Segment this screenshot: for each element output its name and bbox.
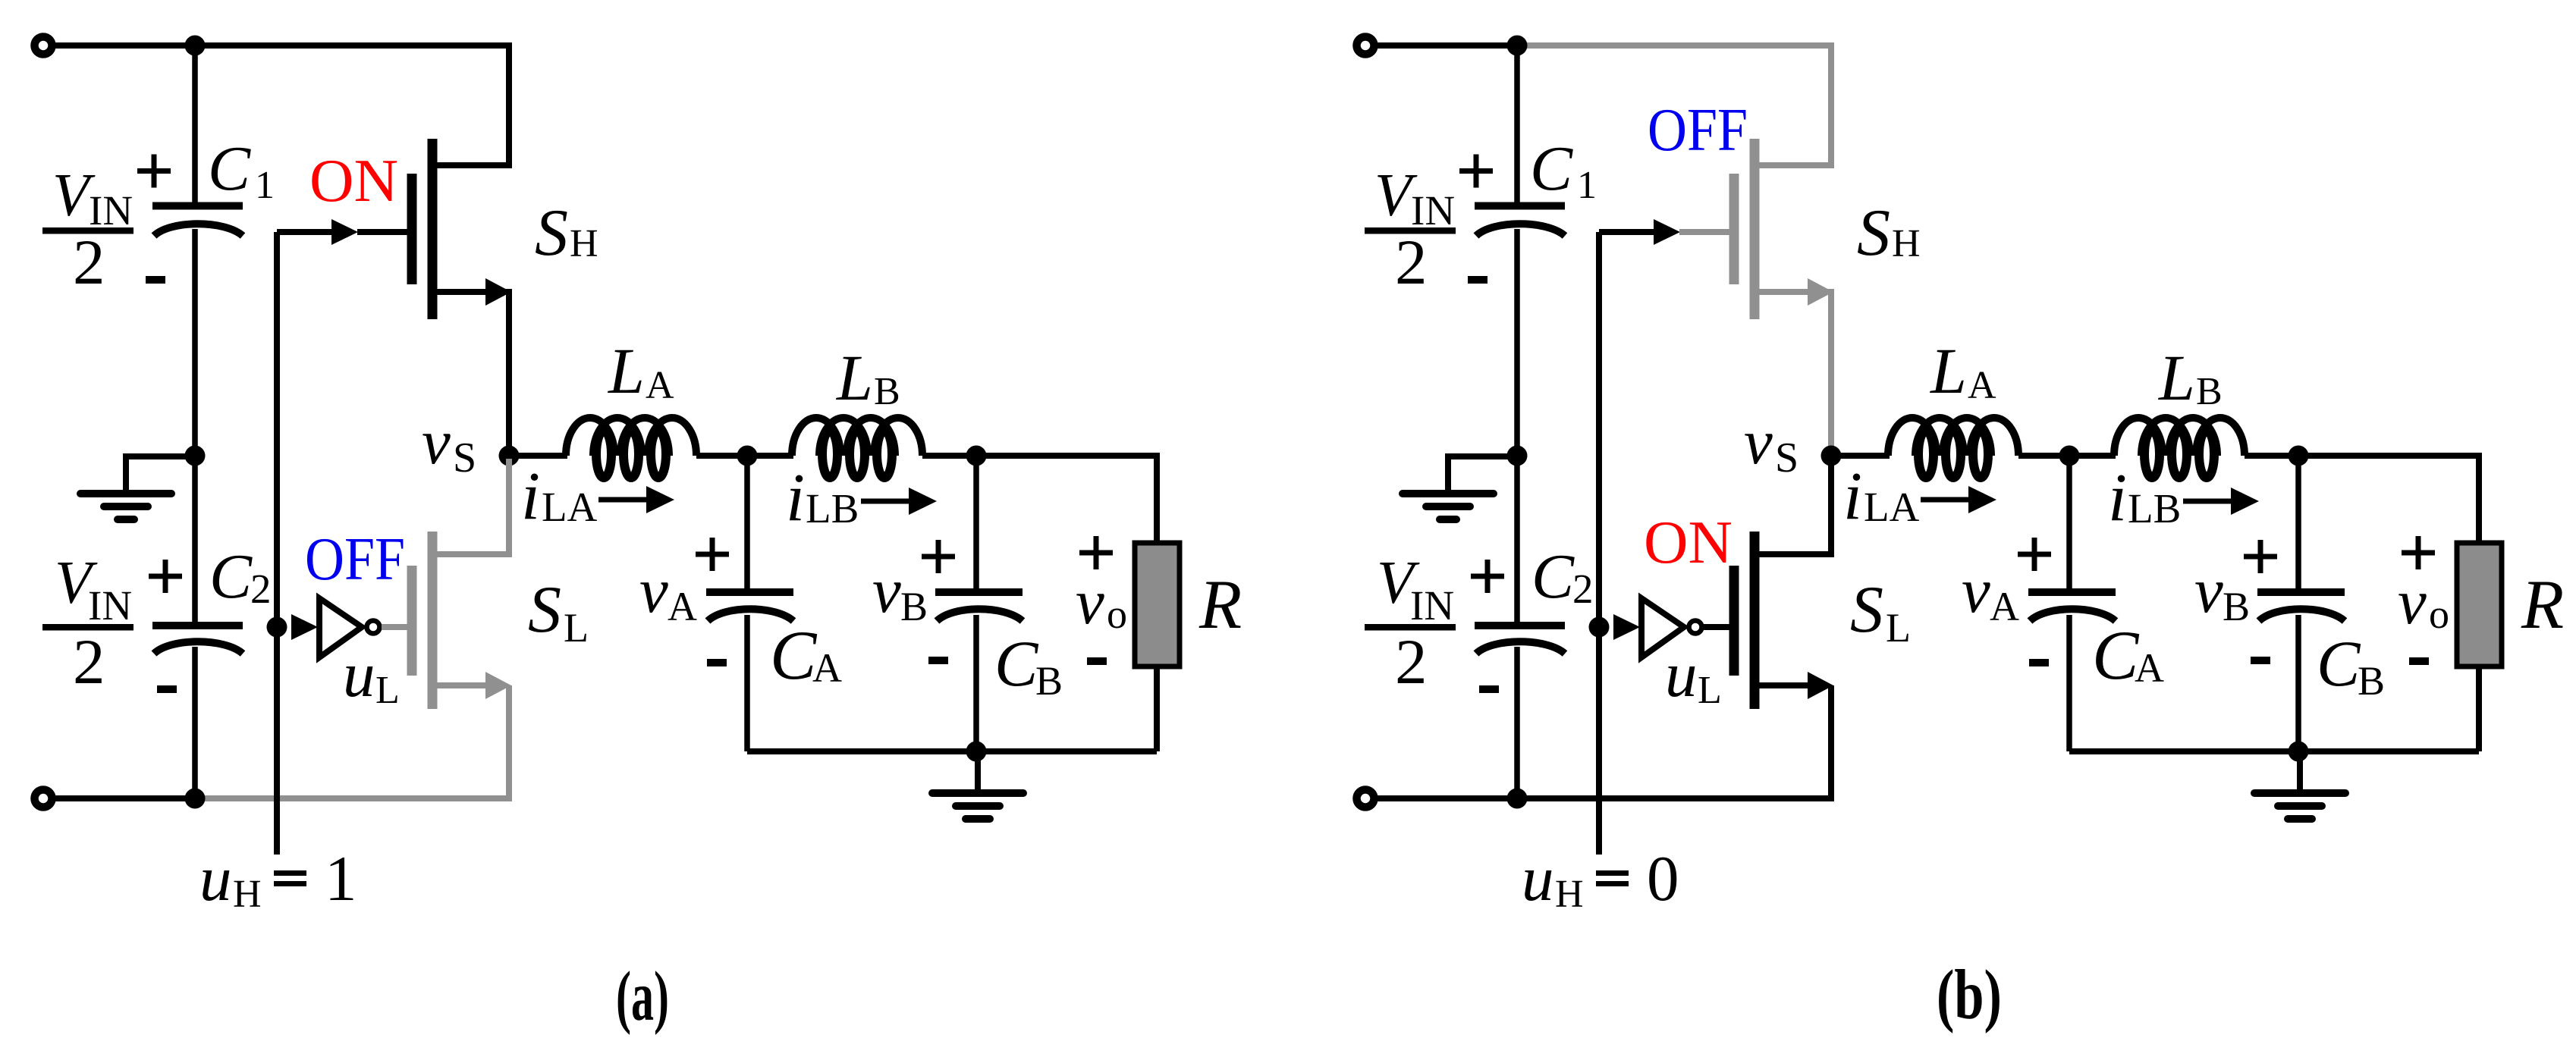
- inverter U1 triangle: [319, 598, 362, 657]
- wire LB to node B: [2245, 453, 2298, 459]
- wire bottom rail left: [1374, 795, 1520, 801]
- arrowhead gate S_H: [331, 219, 358, 245]
- svg-text:B: B: [874, 370, 900, 413]
- polarity plus vo: [2402, 550, 2435, 556]
- transistor S_H drain wire: [1756, 162, 1831, 168]
- svg-text:C: C: [1531, 541, 1575, 612]
- svg-text:LB: LB: [806, 485, 859, 532]
- svg-text:A: A: [1990, 584, 2019, 629]
- polarity minus C2: [157, 685, 177, 693]
- svg-text:IN: IN: [88, 582, 132, 629]
- capacitor CA: [706, 588, 793, 596]
- svg-text:1: 1: [255, 164, 275, 207]
- svg-text:B: B: [2358, 658, 2385, 704]
- polarity minus CB: [2251, 657, 2270, 664]
- arrowhead gate S_H: [1654, 219, 1680, 245]
- wire vS to LA: [509, 453, 567, 459]
- wire C2 top lead: [192, 456, 198, 622]
- wire LA to node A: [2018, 453, 2069, 459]
- inductor LA: [1888, 418, 2018, 456]
- svg-text:0: 0: [1647, 843, 1679, 914]
- svg-text:(b): (b): [1937, 956, 2002, 1034]
- wire top rail to S_H drain: [195, 45, 509, 168]
- transistor S_H source wire + arrow: [434, 289, 487, 295]
- svg-text:OFF: OFF: [1648, 96, 1748, 164]
- polarity minus CA: [707, 659, 727, 666]
- svg-text:2: 2: [73, 227, 105, 298]
- svg-text:C: C: [208, 133, 251, 204]
- node A: [2059, 446, 2080, 466]
- wire C1 bottom lead: [192, 229, 198, 456]
- svg-text:A: A: [1968, 364, 1996, 407]
- svg-text:L: L: [1929, 334, 1967, 407]
- wire vS to S_L drain: [434, 459, 509, 554]
- gate stub S_L: [382, 624, 412, 630]
- svg-text:v: v: [1962, 555, 1990, 626]
- svg-text:L: L: [607, 334, 645, 407]
- svg-text:i: i: [521, 459, 540, 534]
- svg-text:A: A: [2135, 645, 2164, 691]
- wire C2 bottom lead: [1514, 647, 1520, 798]
- junction node CB / ground: [2289, 742, 2309, 762]
- gate stub S_H: [357, 229, 407, 235]
- wire bottom rail to S_L source: [196, 685, 509, 798]
- input terminal bottom: [1357, 790, 1374, 808]
- svg-text:OFF: OFF: [305, 525, 405, 593]
- junction node C1/C2/ground: [185, 446, 206, 466]
- gate stub S_L: [1704, 624, 1734, 630]
- wire node A to LB: [747, 453, 793, 459]
- inductor LA: [566, 418, 696, 456]
- svg-text:v: v: [1744, 406, 1773, 478]
- svg-text:LB: LB: [2128, 485, 2181, 532]
- wire R to rail: [1154, 666, 1160, 751]
- svg-text:ON: ON: [1644, 508, 1733, 576]
- svg-text:2: 2: [1395, 227, 1428, 298]
- capacitor C1: [1475, 202, 1565, 210]
- wire LB to node B: [922, 453, 976, 459]
- svg-text:u: u: [343, 639, 375, 710]
- polarity minus C1: [146, 276, 165, 284]
- junction node top rail / C1: [1507, 36, 1528, 56]
- wire vS to LA: [1831, 453, 1890, 459]
- polarity plus C2: [1471, 574, 1504, 579]
- svg-text:LA: LA: [1864, 484, 1920, 530]
- svg-text:i: i: [1843, 459, 1862, 534]
- svg-text:o: o: [1107, 591, 1127, 637]
- gate drive wire to S_H: [1599, 229, 1654, 235]
- control net uH vertical: [1596, 232, 1602, 855]
- wire top rail left: [1374, 42, 1519, 49]
- svg-text:H: H: [233, 873, 262, 916]
- wire node B to R: [976, 456, 1157, 543]
- wire C1 top lead: [1514, 45, 1520, 203]
- ground symbol left: [126, 456, 195, 491]
- wire top rail left: [52, 42, 196, 49]
- svg-text:C: C: [209, 541, 253, 612]
- transistor S_L gate bar: [407, 566, 417, 676]
- transistor S_H channel bar: [1750, 139, 1760, 319]
- transistor S_L source wire + arrow: [434, 682, 487, 688]
- svg-text:u: u: [1665, 639, 1698, 710]
- wire C1 top lead: [192, 45, 198, 203]
- resistor R: [1135, 543, 1180, 666]
- junction node bottom rail / C2: [1507, 789, 1528, 809]
- svg-text:LA: LA: [542, 484, 598, 530]
- svg-text:L: L: [375, 669, 400, 712]
- polarity plus CA: [696, 552, 729, 557]
- svg-text:L: L: [2157, 341, 2195, 414]
- node A: [737, 446, 758, 466]
- resistor R: [2457, 543, 2502, 666]
- junction node CB / ground: [966, 742, 987, 762]
- input terminal bottom: [35, 790, 52, 808]
- svg-text:A: A: [812, 645, 842, 691]
- svg-text:L: L: [835, 341, 873, 414]
- polarity minus C2: [1479, 685, 1499, 693]
- svg-text:1: 1: [1577, 164, 1597, 207]
- svg-text:R: R: [1198, 566, 1242, 643]
- junction node uH / inverter: [1589, 617, 1610, 638]
- junction node bottom rail / C2: [185, 789, 206, 809]
- svg-text:R: R: [2521, 566, 2564, 643]
- polarity minus CB: [928, 657, 948, 664]
- wire node B to R: [2298, 456, 2479, 543]
- capacitor CB: [2257, 588, 2345, 596]
- wire bottom rail to S_L source: [1519, 685, 1831, 798]
- svg-text:H: H: [570, 222, 598, 265]
- arrowhead inverter input: [1613, 614, 1640, 640]
- wire vS to S_L drain: [1756, 459, 1831, 554]
- capacitor C1: [152, 202, 243, 210]
- polarity plus C1: [1459, 168, 1493, 174]
- capacitor C2: [1475, 622, 1565, 629]
- inductor LB: [2114, 418, 2245, 456]
- svg-text:u: u: [1522, 843, 1554, 914]
- svg-text:v: v: [2398, 566, 2427, 638]
- junction node C1/C2/ground: [1507, 446, 1528, 466]
- wire CB to rail: [2295, 615, 2301, 751]
- node B: [966, 446, 987, 466]
- arrowhead inverter input: [291, 614, 318, 640]
- wire CB to rail: [973, 615, 979, 751]
- svg-text:B: B: [2196, 370, 2223, 413]
- transistor S_L channel bar: [1750, 532, 1760, 709]
- current arrow iLB: [2183, 499, 2231, 504]
- polarity plus CB: [922, 554, 955, 560]
- capacitor CB: [935, 588, 1023, 596]
- wire LA to node A: [696, 453, 747, 459]
- polarity plus vo: [1079, 550, 1113, 556]
- svg-text:S: S: [1775, 434, 1798, 481]
- output bottom rail: [747, 748, 1157, 754]
- svg-text:S: S: [535, 196, 568, 270]
- transistor S_H gate bar: [1729, 174, 1739, 284]
- wire CA to rail: [2066, 615, 2072, 751]
- svg-text:S: S: [528, 573, 561, 647]
- ground symbol output: [975, 751, 981, 793]
- node B: [2289, 446, 2309, 466]
- capacitor C2: [152, 622, 243, 629]
- inverter U1 triangle: [1641, 598, 1684, 657]
- wire top rail to S_H drain: [1517, 45, 1831, 168]
- svg-text:C: C: [2317, 627, 2361, 700]
- capacitor CA: [2028, 588, 2116, 596]
- svg-text:o: o: [2429, 591, 2449, 637]
- wire CA to rail: [744, 615, 750, 751]
- polarity plus CB: [2244, 554, 2277, 560]
- polarity minus vo: [1087, 657, 1107, 665]
- transistor S_H source wire + arrow: [1756, 289, 1809, 295]
- transistor S_L channel bar: [428, 532, 438, 709]
- svg-text:H: H: [1892, 222, 1921, 265]
- polarity plus CA: [2018, 552, 2051, 557]
- inverter bubble: [1689, 621, 1702, 634]
- svg-text:1: 1: [325, 843, 357, 914]
- svg-text:B: B: [2223, 584, 2250, 629]
- transistor S_H gate bar: [407, 174, 417, 284]
- svg-text:v: v: [1076, 566, 1104, 638]
- wire C2 top lead: [1514, 456, 1520, 622]
- wire node A to CA: [2066, 456, 2072, 589]
- output bottom rail: [2069, 748, 2479, 754]
- inverter bubble: [367, 621, 380, 634]
- transistor S_L source wire + arrow: [1756, 682, 1809, 688]
- node vS: [1821, 446, 1842, 466]
- svg-text:S: S: [453, 434, 476, 481]
- svg-text:L: L: [1886, 605, 1911, 651]
- current arrow iLA: [598, 497, 646, 503]
- svg-text:A: A: [668, 584, 697, 629]
- wire node A to CA: [744, 456, 750, 589]
- wire node B to CB: [2295, 456, 2301, 589]
- svg-text:2: 2: [1572, 566, 1594, 612]
- input terminal top: [35, 37, 52, 55]
- transistor S_H drain wire: [434, 162, 509, 168]
- control net uH vertical: [274, 232, 280, 855]
- polarity plus C1: [137, 168, 171, 174]
- svg-text:S: S: [1857, 196, 1890, 270]
- svg-text:v: v: [422, 406, 451, 478]
- svg-text:v: v: [2194, 555, 2223, 626]
- input terminal top: [1357, 37, 1374, 55]
- svg-text:i: i: [2108, 460, 2127, 535]
- transistor S_L gate bar: [1729, 566, 1739, 676]
- wire node A to LB: [2069, 453, 2116, 459]
- svg-text:B: B: [900, 584, 928, 629]
- node vS: [499, 446, 520, 466]
- svg-text:C: C: [770, 616, 818, 694]
- svg-text:u: u: [199, 843, 232, 914]
- ground symbol output: [2297, 751, 2303, 793]
- svg-text:i: i: [786, 460, 805, 535]
- current arrow iLB: [861, 499, 909, 504]
- svg-text:ON: ON: [309, 146, 398, 215]
- wire C1 bottom lead: [1514, 229, 1520, 456]
- svg-text:L: L: [1698, 669, 1722, 712]
- transistor S_H channel bar: [428, 139, 438, 319]
- polarity minus vo: [2409, 657, 2429, 665]
- svg-text:L: L: [564, 605, 589, 651]
- svg-text:2: 2: [73, 626, 105, 698]
- ground symbol left: [1448, 456, 1517, 491]
- wire bottom rail left: [52, 795, 198, 801]
- svg-text:2: 2: [1395, 626, 1428, 698]
- junction node uH / inverter: [267, 617, 287, 638]
- svg-text:C: C: [1530, 133, 1573, 204]
- svg-text:H: H: [1555, 873, 1584, 916]
- gate stub S_H: [1679, 229, 1729, 235]
- svg-text:(a): (a): [616, 958, 669, 1036]
- svg-text:C: C: [2092, 616, 2140, 694]
- wire C2 bottom lead: [192, 647, 198, 798]
- gate drive wire to S_H: [277, 229, 332, 235]
- svg-text:v: v: [639, 555, 668, 626]
- current arrow iLA: [1921, 497, 1968, 503]
- svg-text:v: v: [872, 555, 901, 626]
- polarity minus CA: [2029, 659, 2049, 666]
- svg-text:A: A: [646, 364, 674, 407]
- svg-text:S: S: [1850, 573, 1883, 647]
- wire node B to CB: [973, 456, 979, 589]
- svg-text:B: B: [1035, 658, 1063, 704]
- svg-text:IN: IN: [1410, 582, 1454, 629]
- polarity minus C1: [1468, 276, 1487, 284]
- inductor LB: [792, 418, 922, 456]
- polarity plus C2: [149, 574, 182, 579]
- wire R to rail: [2476, 666, 2482, 751]
- junction node top rail / C1: [185, 36, 206, 56]
- svg-text:2: 2: [250, 566, 272, 612]
- svg-text:C: C: [994, 627, 1039, 700]
